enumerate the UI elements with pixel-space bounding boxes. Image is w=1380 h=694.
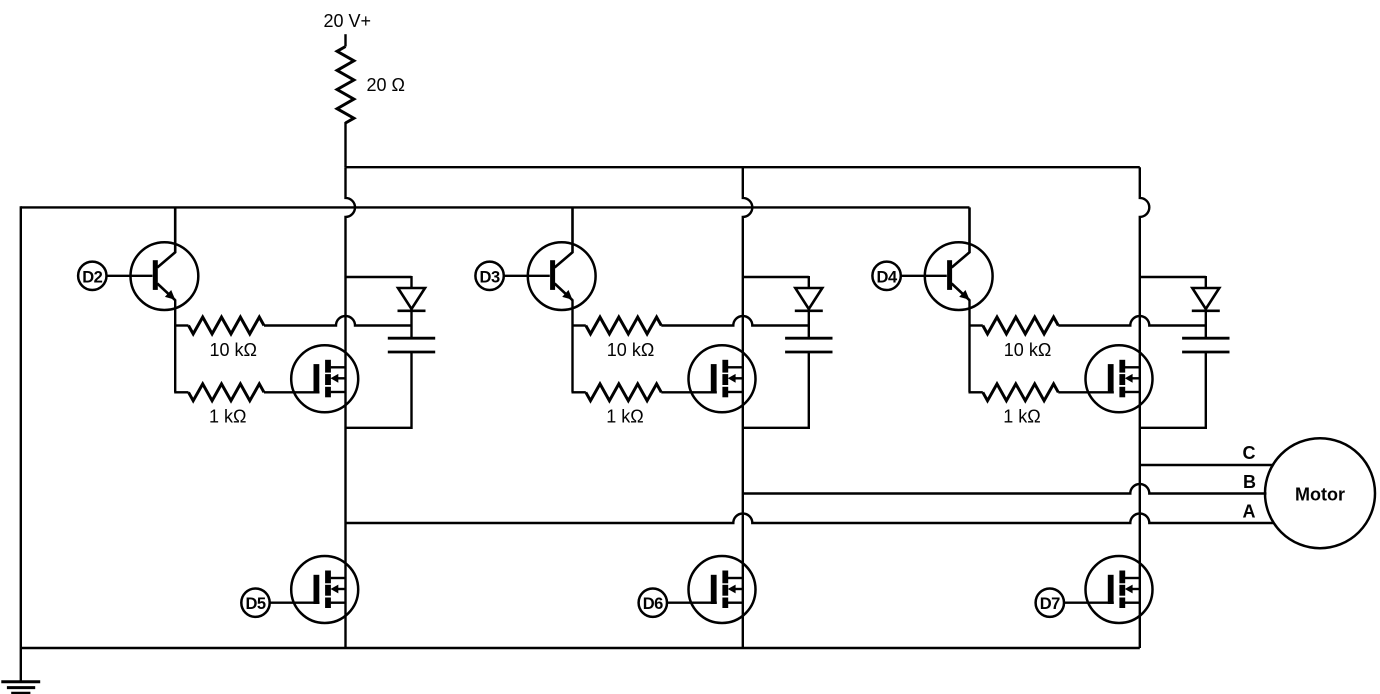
label 1 kΩ	[1003, 407, 1040, 427]
wire 1k to gate	[1058, 391, 1114, 393]
wire D5 to gate	[270, 602, 320, 604]
diode D flyback 2	[795, 276, 823, 311]
capacitor C2	[785, 338, 832, 352]
mosfet M1 low-side	[291, 556, 358, 623]
wire D6 to gate	[667, 602, 717, 604]
wire capacitor to rail	[346, 352, 412, 428]
wire rail to diode top	[1140, 276, 1206, 278]
wire phase B (hops rail 3)	[743, 484, 1267, 494]
transistor emitter arrowhead	[165, 290, 175, 300]
label phase C	[1243, 443, 1256, 463]
label 10 kΩ	[607, 340, 654, 360]
svg-text:D7: D7	[1040, 595, 1060, 613]
resistor 1k lead left	[969, 391, 983, 393]
wire diode to capacitor	[808, 311, 810, 338]
svg-text:1 kΩ: 1 kΩ	[1003, 407, 1040, 427]
wire V+ to resistor	[344, 34, 346, 46]
mosfet M3 high-side	[1086, 345, 1153, 412]
wire resistor to rail 1 top	[344, 122, 346, 167]
wire D7 to gate	[1064, 602, 1114, 604]
wire rail to diode top	[346, 276, 412, 278]
wire V+ feed line	[346, 166, 1140, 168]
label 20 ohm	[367, 75, 405, 95]
transistor emitter lead with arrow	[157, 284, 175, 301]
transistor emitter lead with arrow	[952, 284, 970, 301]
svg-text:10 kΩ: 10 kΩ	[607, 340, 654, 360]
motor label	[1295, 484, 1345, 504]
resistor 10k lead left	[969, 324, 983, 326]
transistor emitter lead with arrow	[555, 284, 573, 301]
wire collector net (top horizontal)	[21, 206, 970, 208]
mosfet M2 low-side	[689, 556, 756, 623]
diode D flyback 1	[398, 276, 426, 311]
wire rail to diode top	[743, 276, 809, 278]
svg-text:D4: D4	[877, 268, 898, 286]
resistor 20 ohm	[337, 47, 354, 124]
svg-text:A: A	[1243, 501, 1256, 521]
wire diode to capacitor	[410, 311, 412, 338]
wire phase A (hops rails 2,3)	[346, 514, 1274, 524]
resistor 10 kΩ R2a	[586, 317, 662, 334]
label 10 kΩ	[1004, 340, 1051, 360]
transistor base bar	[947, 260, 952, 290]
label 1 kΩ	[209, 407, 246, 427]
capacitor C1	[388, 338, 435, 352]
wire ground rail (bottom)	[21, 647, 1140, 649]
motor M1 circle	[1265, 438, 1375, 548]
svg-text:1 kΩ: 1 kΩ	[209, 407, 246, 427]
resistor 10k lead left	[572, 324, 586, 326]
svg-text:B: B	[1243, 472, 1256, 492]
wire 10k to diode node (hops rail)	[1058, 316, 1206, 326]
svg-text:Motor: Motor	[1295, 484, 1345, 504]
node D3 label circle	[475, 262, 503, 290]
label phase B	[1243, 472, 1256, 492]
node D6 label circle	[639, 589, 667, 617]
node D2 label circle	[78, 262, 106, 290]
power label 20 V+	[324, 11, 372, 31]
svg-text:10 kΩ: 10 kΩ	[210, 340, 257, 360]
wire capacitor to rail	[1140, 352, 1206, 428]
wire D3 to base	[504, 275, 550, 277]
wire left border	[20, 206, 22, 681]
label 1 kΩ	[606, 407, 643, 427]
resistor 1k lead left	[572, 391, 586, 393]
node D7 label circle	[1036, 589, 1064, 617]
transistor Q (D3 driver) circle	[528, 242, 596, 310]
resistor 1 kΩ R2b	[586, 384, 662, 401]
transistor Q (D2 driver) circle	[131, 242, 199, 310]
transistor base bar	[550, 260, 555, 290]
wire D4 to base	[901, 275, 947, 277]
svg-text:10 kΩ: 10 kΩ	[1004, 340, 1051, 360]
mosfet M1 high-side	[291, 345, 358, 412]
svg-text:20 Ω: 20 Ω	[367, 75, 405, 95]
svg-text:1 kΩ: 1 kΩ	[606, 407, 643, 427]
node D4 label circle	[872, 262, 900, 290]
wire emitter down	[174, 300, 176, 393]
transistor emitter arrowhead	[562, 290, 572, 300]
resistor 10 kΩ R3a	[983, 317, 1059, 334]
transistor collector lead	[157, 207, 175, 267]
svg-text:20 V+: 20 V+	[324, 11, 372, 31]
svg-text:C: C	[1243, 443, 1256, 463]
mosfet M3 low-side	[1086, 556, 1153, 623]
svg-text:D5: D5	[245, 595, 265, 613]
wire rail 2 (hops collector net)	[743, 167, 753, 648]
node D5 label circle	[241, 589, 269, 617]
wire diode to capacitor	[1205, 311, 1207, 338]
diode D flyback 3	[1192, 276, 1220, 311]
wire 10k to diode node (hops rail)	[264, 316, 412, 326]
capacitor C3	[1182, 338, 1229, 352]
resistor 10 kΩ R1a	[189, 317, 265, 334]
transistor collector lead	[952, 207, 970, 267]
wire 10k to diode node (hops rail)	[661, 316, 809, 326]
mosfet M2 high-side	[689, 345, 756, 412]
label 10 kΩ	[210, 340, 257, 360]
transistor Q (D4 driver) circle	[925, 242, 993, 310]
label phase A	[1243, 501, 1256, 521]
resistor 1 kΩ R1b	[189, 384, 265, 401]
wire capacitor to rail	[743, 352, 809, 428]
svg-text:D3: D3	[480, 268, 500, 286]
resistor 10k lead left	[174, 324, 188, 326]
wire emitter down	[571, 300, 573, 393]
wire 1k to gate	[264, 391, 320, 393]
wire phase C	[1140, 464, 1273, 466]
wire emitter down	[968, 300, 970, 393]
wire rail 1 (hops collector net)	[346, 167, 356, 648]
wire rail 3 (hops collector net)	[1140, 167, 1150, 648]
svg-text:D2: D2	[82, 268, 102, 286]
transistor collector lead	[555, 207, 573, 267]
transistor base bar	[153, 260, 158, 290]
resistor 1 kΩ R3b	[983, 384, 1059, 401]
wire D2 to base	[107, 275, 153, 277]
ground symbol	[1, 682, 40, 694]
wire 1k to gate	[661, 391, 717, 393]
resistor 1k lead left	[174, 391, 188, 393]
transistor emitter arrowhead	[959, 290, 969, 300]
svg-text:D6: D6	[643, 595, 663, 613]
